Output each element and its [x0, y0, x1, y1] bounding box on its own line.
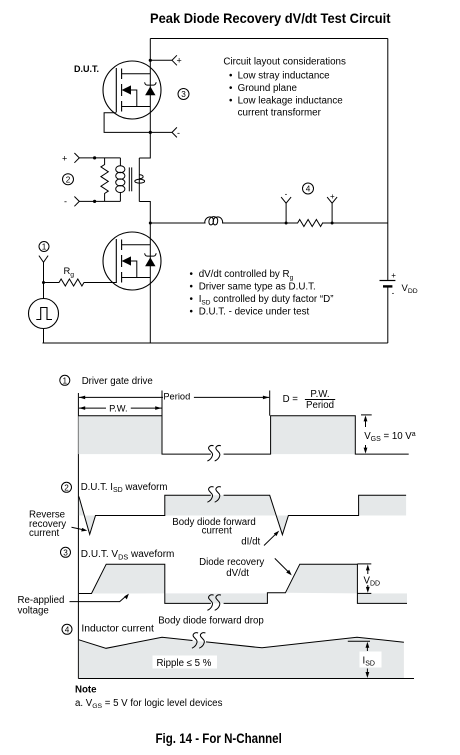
- svg-text:4: 4: [306, 185, 311, 194]
- node 1 label: Driver gate drive: [60, 375, 70, 385]
- node 2: [63, 174, 74, 185]
- svg-text:•: •: [190, 281, 194, 292]
- svg-text:ISD controlled by duty factor: ISD controlled by duty factor “D”: [199, 294, 334, 307]
- svg-text:•: •: [190, 306, 194, 317]
- svg-text:3: 3: [181, 90, 186, 99]
- svg-text:dV/dt controlled by Rg: dV/dt controlled by Rg: [199, 269, 294, 282]
- svg-text:Body diode forward drop: Body diode forward drop: [158, 615, 264, 626]
- node 4 terminals: [281, 183, 337, 225]
- svg-text:-: -: [177, 128, 180, 138]
- wire: bottom ground rail: [43, 342, 388, 344]
- node 4: [303, 183, 314, 194]
- svg-text:4: 4: [65, 625, 70, 634]
- waveform 2: ISD fills: [79, 497, 84, 516]
- svg-text:Driver same type as D.U.T.: Driver same type as D.U.T.: [199, 281, 316, 292]
- resistor (rail, series): [298, 219, 323, 227]
- waveform 4: inductor current fill: [79, 637, 404, 678]
- text block: circuit layout considerations: [223, 57, 346, 119]
- wire: box top edge: [150, 38, 387, 40]
- waveform axis (common left vertical): [77, 393, 79, 679]
- transformer primary winding: [119, 158, 121, 166]
- svg-text:P.W.: P.W.: [310, 389, 329, 400]
- svg-text:•: •: [229, 83, 233, 94]
- svg-text:+: +: [330, 192, 335, 201]
- svg-text:P.W.: P.W.: [109, 404, 127, 414]
- svg-text:D.U.T.: D.U.T.: [74, 64, 99, 74]
- svg-text:•: •: [190, 294, 194, 305]
- svg-text:2: 2: [64, 483, 69, 492]
- pulse generator: [29, 299, 59, 329]
- svg-text:D.U.T. ISD waveform: D.U.T. ISD waveform: [81, 482, 168, 494]
- node 2 label: D.U.T. ISD waveform: [62, 482, 72, 492]
- node 1: [39, 242, 49, 252]
- svg-text:-: -: [392, 289, 395, 298]
- dimension: VGS = 10 V: [361, 415, 416, 454]
- svg-text:Driver gate drive: Driver gate drive: [82, 376, 153, 387]
- svg-text:Inductor current: Inductor current: [81, 624, 154, 635]
- transformer core: [128, 167, 130, 191]
- waveform 3: VDS trace: [79, 564, 407, 603]
- svg-text:current transformer: current transformer: [238, 108, 322, 119]
- annotation: Re-applied voltage: [18, 595, 65, 617]
- svg-text:current: current: [202, 526, 232, 537]
- inductor L: [205, 217, 223, 226]
- svg-text:•: •: [229, 71, 233, 82]
- svg-text:voltage: voltage: [18, 605, 49, 616]
- terminal arrow 1: [39, 256, 48, 263]
- node 3 label: D.U.T. VDS waveform: [61, 547, 71, 557]
- tick marks: [161, 391, 163, 416]
- dimension: Period: [79, 392, 269, 402]
- resistor (transformer damping): [101, 158, 108, 202]
- svg-text:2: 2: [66, 175, 71, 184]
- waveform 1: driver gate drive pulses: [78, 416, 162, 454]
- transformer T1 with resistor: [62, 153, 145, 207]
- dimension: VDD: [357, 564, 380, 594]
- wire: right edge upper (to battery): [387, 39, 389, 281]
- svg-text:Diode recovery: Diode recovery: [199, 557, 264, 568]
- annotation: Body diode forward current: [172, 517, 255, 537]
- transformer secondary (single turn): [138, 158, 140, 202]
- battery VDD: [380, 271, 418, 298]
- svg-text:1: 1: [42, 243, 47, 252]
- svg-text:Ground plane: Ground plane: [238, 83, 298, 94]
- svg-text:•: •: [190, 269, 194, 280]
- svg-text:-: -: [285, 190, 288, 199]
- svg-text:Period: Period: [163, 392, 190, 402]
- wire: mid rail to right edge: [150, 222, 387, 224]
- transistor driver (lower MOSFET): [103, 232, 161, 290]
- dimension: ISD: [348, 641, 382, 678]
- svg-text:•: •: [229, 95, 233, 106]
- svg-text:D =: D =: [283, 394, 299, 405]
- svg-text:Note: Note: [75, 685, 97, 696]
- waveform 4: inductor current trace: [79, 637, 404, 648]
- svg-text:+: +: [391, 271, 396, 280]
- svg-text:1: 1: [63, 376, 68, 385]
- text block: dV/dt bullets: [190, 269, 334, 318]
- svg-text:current: current: [29, 528, 59, 539]
- svg-text:Fig. 14 - For N-Channel: Fig. 14 - For N-Channel: [156, 730, 282, 746]
- node - terminal (mid): [149, 127, 180, 137]
- svg-text:+: +: [62, 153, 67, 163]
- waveform 2: ISD trace: [79, 495, 406, 534]
- wire: D.U.T. gate-to-source strap: [104, 113, 151, 133]
- node 3: [178, 89, 189, 100]
- svg-text:Low leakage inductance: Low leakage inductance: [238, 95, 344, 106]
- annotation: Ripple: [153, 656, 218, 670]
- svg-text:Peak Diode Recovery dV/dt Test: Peak Diode Recovery dV/dt Test Circuit: [150, 10, 391, 26]
- svg-text:Ripple ≤ 5 %: Ripple ≤ 5 %: [157, 658, 212, 669]
- svg-text:3: 3: [63, 548, 68, 557]
- svg-text:Low stray inductance: Low stray inductance: [238, 71, 331, 82]
- dimension: P.W.: [79, 404, 162, 414]
- svg-text:Re-applied: Re-applied: [18, 595, 65, 606]
- svg-text:dV/dt: dV/dt: [226, 568, 249, 579]
- wire: main vertical drain/source line: [139, 39, 150, 344]
- node 4 label: Inductor current: [62, 624, 72, 634]
- waveform 4: baseline: [78, 678, 414, 680]
- resistor Rg + pulse source + node 1: [29, 242, 117, 344]
- formula D = P.W./Period: [283, 389, 336, 411]
- resistor Rg: [44, 279, 117, 286]
- annotation: Diode recovery dV/dt: [199, 557, 264, 579]
- transistor D.U.T. (upper MOSFET): [103, 61, 161, 119]
- svg-text:-: -: [64, 197, 67, 207]
- svg-text:dI/dt: dI/dt: [241, 537, 260, 548]
- node + terminal (top): [149, 55, 182, 65]
- svg-text:D.U.T. VDS waveform: D.U.T. VDS waveform: [81, 549, 175, 561]
- svg-text:Circuit layout considerations: Circuit layout considerations: [223, 57, 346, 68]
- annotation: Reverse recovery current: [29, 510, 66, 540]
- svg-text:+: +: [177, 56, 182, 66]
- svg-text:D.U.T. - device under test: D.U.T. - device under test: [199, 306, 310, 317]
- waveform 3: VDS fills: [92, 564, 165, 593]
- wire: right edge lower (battery to bottom rail): [387, 287, 389, 344]
- svg-text:Period: Period: [306, 400, 334, 411]
